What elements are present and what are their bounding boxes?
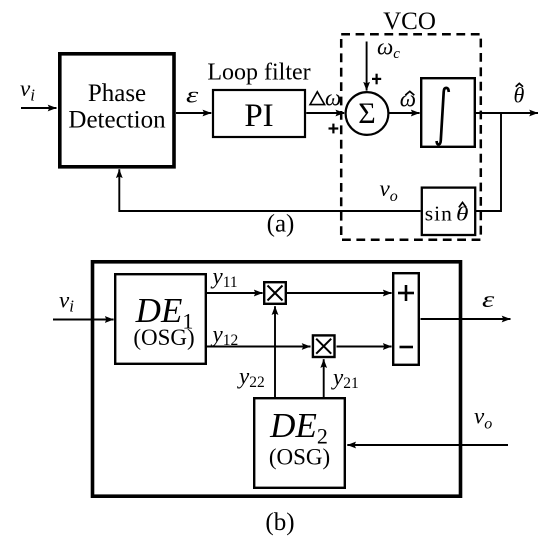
svg-text:ω: ω: [400, 87, 416, 112]
wire multiplier1 to summer plus: [287, 292, 392, 294]
block summer plus-minus (b): [393, 273, 419, 365]
wire PI to summer: [306, 112, 344, 114]
svg-text:ω: ω: [325, 86, 341, 111]
wire vo input to DE2: [347, 444, 508, 446]
wire summer to integrator: [389, 112, 420, 114]
wire omega_c into summer: [366, 42, 368, 91]
svg-text:ε: ε: [482, 287, 495, 312]
summer sigma: [346, 92, 389, 135]
wire y21 DE2 to multiplier2: [323, 359, 325, 397]
wire vi input (b): [53, 319, 114, 321]
svg-text:vi: vi: [59, 287, 74, 315]
wire integrator output theta-hat: [476, 112, 538, 114]
node delta-omega label: [310, 86, 341, 111]
node omega-hat label: [400, 87, 416, 112]
svg-text:Loop filter: Loop filter: [207, 60, 310, 86]
svg-text:(b): (b): [265, 509, 294, 536]
wire junction theta output down to sin block: [476, 113, 501, 211]
svg-text:Phase: Phase: [88, 80, 146, 107]
svg-text:y12: y12: [211, 322, 239, 349]
svg-text:Detection: Detection: [68, 107, 166, 134]
wire multiplier2 to summer minus: [337, 346, 392, 348]
svg-text:y11: y11: [211, 264, 238, 291]
block PI loop filter: [213, 90, 305, 137]
svg-text:y21: y21: [331, 365, 359, 392]
svg-text:VCO: VCO: [383, 8, 436, 35]
wire DE1 y11 to multiplier1: [207, 292, 263, 294]
node theta-hat label: [514, 83, 525, 108]
svg-text:y22: y22: [237, 364, 265, 391]
block sin theta-hat: [422, 188, 475, 235]
block DE1 OSG: [115, 274, 206, 364]
block multiplier M2: [313, 335, 335, 357]
svg-text:(OSG): (OSG): [269, 445, 330, 470]
block Phase Detection: [60, 54, 174, 167]
block outer system box (b): [93, 262, 461, 496]
block integrator: [421, 78, 475, 147]
svg-text:sin: sin: [425, 202, 453, 226]
svg-text:(a): (a): [267, 211, 295, 238]
block DE2 OSG: [254, 398, 345, 488]
wire feedback sin output to phase detection: [119, 169, 420, 211]
wire y22 DE2 to multiplier1: [274, 306, 276, 397]
block VCO dashed box: [341, 34, 481, 240]
svg-text:ωc: ωc: [377, 35, 400, 63]
block multiplier M1: [264, 282, 286, 304]
svg-text:(OSG): (OSG): [133, 325, 194, 350]
svg-text:DE2: DE2: [269, 406, 328, 449]
svg-text:ε: ε: [186, 82, 199, 107]
wire epsilon output (b): [421, 318, 511, 320]
wire epsilon PD to PI: [176, 112, 211, 114]
svg-text:vi: vi: [20, 76, 35, 105]
svg-text:PI: PI: [244, 98, 273, 134]
wire vi input (a): [21, 107, 57, 109]
svg-text:vo: vo: [474, 404, 492, 433]
label plus sign at omega_c input: [372, 74, 381, 85]
svg-text:vo: vo: [380, 176, 398, 205]
svg-text:Σ: Σ: [358, 97, 375, 130]
label plus sign at summer lower input: [329, 124, 339, 134]
wire DE1 y12 to multiplier2: [207, 346, 311, 348]
